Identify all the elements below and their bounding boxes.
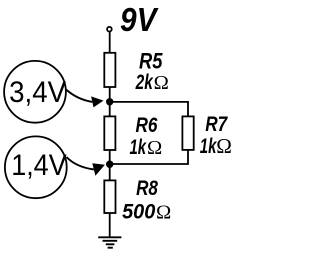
node B junction dot (106, 161, 113, 168)
svg-text:3,4V: 3,4V (9, 76, 66, 109)
wire R5 to node A (109, 87, 111, 102)
callout circle 1,4V (5, 136, 67, 198)
svg-text:9V: 9V (120, 1, 159, 38)
resistor R7 (182, 116, 193, 149)
arrowhead 3,4V (91, 96, 103, 107)
wire terminal to R5 (109, 32, 111, 53)
svg-text:500: 500 (122, 200, 155, 224)
svg-text:1k: 1k (200, 134, 217, 158)
resistor R8 (104, 180, 115, 213)
wire node A to R6 (109, 102, 111, 117)
ground (98, 237, 121, 247)
wire R6 to node B (109, 150, 111, 164)
svg-text:R6: R6 (136, 113, 159, 137)
wire R8 to ground (109, 213, 111, 237)
svg-text:2k: 2k (135, 70, 154, 94)
terminal 9V (107, 27, 112, 32)
callout circle 3,4V (4, 61, 66, 123)
svg-text:1,4V: 1,4V (11, 149, 66, 182)
wire node A to R7 branch (110, 102, 188, 117)
resistor R5 (104, 53, 115, 87)
svg-text:Ω: Ω (147, 137, 162, 159)
resistor R6 (104, 116, 115, 150)
arrowhead 1,4V (92, 163, 105, 176)
svg-text:1k: 1k (130, 135, 147, 159)
svg-text:Ω: Ω (154, 72, 169, 94)
svg-text:Ω: Ω (156, 202, 171, 224)
wire R7 to node B (110, 150, 188, 164)
svg-text:R8: R8 (136, 176, 158, 200)
node A junction dot (106, 98, 113, 105)
leader line 3,4V (66, 90, 92, 102)
svg-text:R7: R7 (205, 113, 228, 136)
wire node B to R8 (109, 164, 111, 180)
svg-text:Ω: Ω (216, 134, 232, 158)
leader line 1,4V (67, 157, 94, 170)
